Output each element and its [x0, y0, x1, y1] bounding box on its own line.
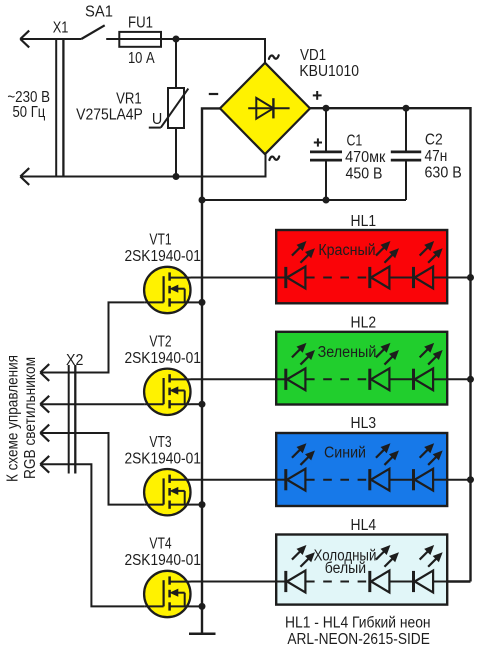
- varistor VR1 V275LA4P: [76, 39, 188, 177]
- node fuse/varistor top: [173, 36, 180, 43]
- svg-text:HL1 - HL4 Гибкий неон: HL1 - HL4 Гибкий неон: [285, 614, 431, 631]
- svg-text:Синий: Синий: [324, 444, 366, 461]
- transistor VT4 2SK1940-01: [124, 536, 201, 618]
- LED strip HL1: [276, 213, 447, 303]
- wire plus bus to HL4: [447, 580, 471, 582]
- wire HL4 to plus bus: [447, 581, 470, 583]
- svg-text:HL1: HL1: [351, 213, 377, 230]
- svg-text:VD1: VD1: [300, 47, 326, 64]
- svg-text:VT4: VT4: [149, 536, 171, 553]
- label minus: [209, 93, 218, 95]
- ground: [189, 633, 216, 636]
- node C1 bottom: [323, 197, 330, 204]
- svg-text:C1: C1: [347, 133, 363, 150]
- node varistor bottom: [173, 173, 180, 180]
- svg-text:VT2: VT2: [149, 333, 171, 350]
- wire HL3 to plus bus: [447, 479, 470, 481]
- svg-text:X1: X1: [53, 20, 69, 37]
- svg-text:VT1: VT1: [149, 232, 171, 249]
- node C1 top: [323, 105, 330, 112]
- wire VT2 drain to HL2: [191, 378, 277, 380]
- wire top AC: [20, 38, 81, 40]
- capacitor C2 47n 630 V: [391, 108, 462, 200]
- svg-text:HL2: HL2: [351, 314, 377, 331]
- label HL1-HL4 flexible neon: [285, 614, 431, 648]
- wire plus top: [310, 108, 471, 581]
- fuse FU1 10 A: [119, 15, 161, 67]
- wire bottom AC: [20, 154, 265, 176]
- svg-text:C2: C2: [425, 132, 443, 149]
- LED strip HL4: [276, 517, 447, 605]
- wire VT1 drain to HL1: [191, 277, 277, 279]
- svg-text:RGB светильником: RGB светильником: [22, 357, 39, 479]
- svg-text:2SK1940-01: 2SK1940-01: [124, 350, 201, 367]
- wire VT4 drain to HL4: [191, 581, 277, 583]
- wire capacitors bottom: [202, 199, 406, 201]
- capacitor C1 470mk 450 V: [310, 108, 385, 200]
- LED strip HL2: [276, 314, 447, 404]
- svg-text:10 А: 10 А: [128, 50, 155, 67]
- svg-text:FU1: FU1: [128, 15, 153, 32]
- wire VT3 gate to X2: [40, 433, 144, 505]
- svg-text:X2: X2: [66, 352, 83, 369]
- svg-text:Красный: Красный: [318, 242, 375, 259]
- wire fuse to bridge: [176, 39, 265, 63]
- label ~ top: [269, 55, 279, 59]
- wire switch to fuse: [106, 38, 176, 40]
- wire HL2 to plus bus: [447, 378, 470, 380]
- svg-text:50 Гц: 50 Гц: [13, 104, 46, 121]
- LED strip HL3: [276, 415, 447, 506]
- label to RGB control circuit (rotated): [5, 355, 40, 482]
- svg-text:К схеме управления: К схеме управления: [5, 355, 22, 482]
- transistor VT3 2SK1940-01: [124, 434, 201, 516]
- wire HL1 to plus bus: [447, 277, 470, 279]
- node minus/caps: [199, 197, 206, 204]
- wire VT3 source to bus: [191, 504, 203, 506]
- svg-text:HL4: HL4: [351, 517, 377, 534]
- switch SA1: [81, 4, 113, 40]
- wire minus bus: [202, 108, 220, 633]
- node HL3 plus: [467, 476, 474, 483]
- svg-text:VR1: VR1: [116, 90, 142, 107]
- svg-text:47н: 47н: [425, 148, 448, 165]
- wire VT1 source to bus: [191, 301, 203, 303]
- svg-text:белый: белый: [325, 560, 366, 577]
- node HL2 plus: [467, 376, 474, 383]
- svg-text:2SK1940-01: 2SK1940-01: [124, 552, 201, 569]
- wire VT2 source to bus: [191, 403, 203, 405]
- svg-text:SA1: SA1: [85, 4, 113, 21]
- bridge rectifier VD1 KBU1010: [220, 47, 359, 154]
- wire VT1 gate to X2: [40, 302, 144, 372]
- svg-text:U: U: [152, 111, 162, 128]
- connector X2: [40, 352, 83, 473]
- svg-text:470мк: 470мк: [345, 149, 385, 166]
- svg-text:450 В: 450 В: [346, 165, 383, 182]
- svg-text:ARL-NEON-2615-SIDE: ARL-NEON-2615-SIDE: [287, 631, 430, 648]
- svg-text:VT3: VT3: [149, 434, 171, 451]
- node HL1 plus: [467, 274, 474, 281]
- wire VT4 source to bus: [191, 605, 203, 607]
- label ~230 V 50 Hz: [7, 89, 50, 121]
- svg-text:KBU1010: KBU1010: [299, 63, 359, 80]
- label ~ bottom: [269, 156, 279, 160]
- connector X1: [20, 20, 68, 185]
- svg-text:2SK1940-01: 2SK1940-01: [124, 450, 201, 467]
- svg-text:Зеленый: Зеленый: [318, 344, 377, 361]
- wire VT3 drain to HL3: [191, 479, 277, 481]
- wire VT2 gate to X2: [40, 403, 144, 405]
- transistor VT2 2SK1940-01: [124, 333, 201, 415]
- svg-text:V275LA4P: V275LA4P: [76, 107, 143, 124]
- transistor VT1 2SK1940-01: [124, 232, 201, 314]
- svg-text:2SK1940-01: 2SK1940-01: [124, 248, 201, 265]
- label plus: [313, 94, 322, 96]
- svg-text:HL3: HL3: [351, 415, 377, 432]
- node C2 top: [403, 105, 410, 112]
- svg-text:630 В: 630 В: [425, 165, 462, 182]
- wire VT4 gate to X2: [40, 464, 144, 606]
